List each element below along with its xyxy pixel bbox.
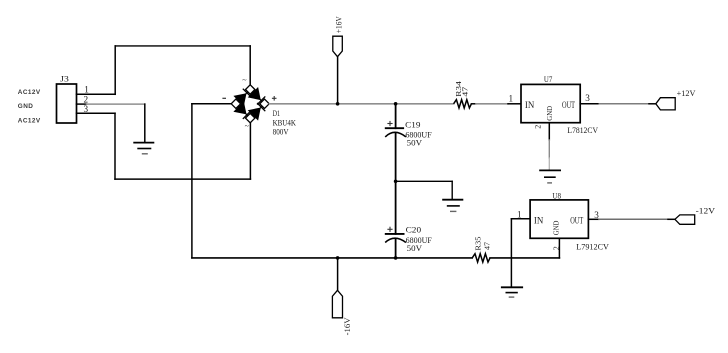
- wire rail to C19 top: [395, 104, 397, 128]
- wire U7 pin2 down (light): [548, 158, 550, 170]
- wire pin2 down to ground: [144, 104, 146, 143]
- power flag -12V shape: [675, 215, 695, 224]
- junction dot at -16V flag: [336, 256, 340, 260]
- wire vertical down from pin3: [114, 113, 116, 179]
- junction dot mid ground branch: [394, 180, 398, 184]
- svg-text:GND: GND: [18, 103, 34, 110]
- svg-text:OUT: OUT: [562, 100, 575, 111]
- svg-text:~: ~: [242, 76, 247, 85]
- svg-text:OUT: OUT: [570, 216, 583, 227]
- ground symbol at U8: [502, 287, 522, 297]
- wire U8 pin1 / ground vertical: [510, 219, 512, 287]
- capacitor C19 symbol: [385, 121, 406, 137]
- wire bottom horizontal to bridge: [115, 178, 250, 180]
- svg-text:47: 47: [483, 242, 492, 250]
- svg-text:KBU4K: KBU4K: [273, 118, 296, 127]
- wire U8 pin2 down: [558, 238, 560, 258]
- svg-text:GND: GND: [552, 220, 561, 235]
- svg-text:3: 3: [585, 93, 590, 103]
- wire down to bridge ~ top: [249, 46, 251, 85]
- wire stub into U7 pin1: [508, 103, 521, 105]
- svg-text:U7: U7: [544, 75, 552, 84]
- resistor R34 zigzag: [454, 100, 472, 108]
- wire -16V flag drop: [337, 258, 339, 290]
- wire into +12V flag: [649, 103, 656, 105]
- svg-text:AC12V: AC12V: [18, 89, 41, 96]
- wire top horizontal to bridge: [115, 45, 250, 47]
- regulator U7 box: [521, 84, 580, 122]
- svg-text:1: 1: [517, 210, 522, 220]
- svg-text:IN: IN: [525, 100, 534, 111]
- power flag +12V shape: [656, 98, 675, 110]
- ground symbol at J3 pin2: [134, 143, 153, 154]
- ground symbol at U7: [540, 170, 560, 183]
- junction dot at +16V flag: [336, 102, 340, 106]
- svg-text:L7812CV: L7812CV: [567, 125, 598, 135]
- junction dot C20 at bottom rail: [394, 256, 398, 260]
- svg-text:50V: 50V: [407, 243, 423, 253]
- svg-text:D1: D1: [273, 109, 280, 118]
- regulator U8 box: [530, 200, 588, 238]
- svg-text:AC12V: AC12V: [18, 118, 41, 125]
- svg-text:3: 3: [594, 210, 599, 220]
- connector J3 box: [57, 84, 77, 123]
- wire bridge - terminal stub: [192, 103, 231, 105]
- svg-text:C19: C19: [405, 119, 420, 129]
- wire J3 pin1 to corner: [77, 93, 116, 95]
- wire bridge + to R34 (gray net): [269, 103, 453, 105]
- wire U7 pin3 stub: [580, 103, 599, 105]
- wire U8 pin3 stub: [588, 218, 599, 220]
- wire bridge ~ bottom down: [249, 123, 251, 179]
- bridge terminal label + (right): [272, 96, 277, 101]
- wire J3 pin2 gray net: [87, 103, 145, 105]
- svg-text:3: 3: [84, 104, 89, 114]
- wire R34 to U7 pin1 (gray net): [476, 103, 508, 105]
- svg-text:GND: GND: [545, 106, 554, 121]
- wire vertical bridge - to bottom rail: [191, 104, 193, 258]
- wire into -12V flag: [668, 218, 675, 220]
- bridge terminal label - (left): [222, 97, 226, 99]
- svg-text:50V: 50V: [407, 137, 423, 147]
- svg-text:2: 2: [534, 125, 543, 129]
- svg-text:R35: R35: [473, 236, 482, 250]
- wire bottom rail right of R35: [490, 257, 559, 259]
- svg-text:~: ~: [245, 121, 250, 130]
- wire C19 bottom to mid junction and C20: [395, 133, 397, 234]
- wire vertical up from pin1: [114, 46, 116, 94]
- wire C20 bottom to rail: [395, 239, 397, 258]
- svg-text:1: 1: [509, 94, 514, 104]
- wire +16V flag to rail: [337, 57, 339, 104]
- ground symbol mid (C19/C20): [443, 200, 462, 212]
- bridge rectifier D1: [231, 85, 269, 123]
- svg-text:-12V: -12V: [696, 206, 716, 216]
- svg-text:J3: J3: [60, 75, 69, 84]
- svg-text:C20: C20: [406, 224, 422, 234]
- resistor R35 zigzag: [472, 254, 490, 262]
- capacitor C20 symbol: [385, 227, 406, 243]
- wire R34 right stub: [471, 103, 476, 105]
- svg-text:800V: 800V: [273, 128, 289, 137]
- svg-text:+16V: +16V: [334, 16, 343, 33]
- svg-text:47: 47: [460, 87, 469, 97]
- power flag +16V shape: [333, 36, 343, 57]
- svg-text:1: 1: [84, 85, 89, 95]
- svg-text:-16V: -16V: [343, 317, 352, 335]
- wire U8 out gray net: [599, 218, 668, 220]
- wire bottom rail left of R35: [192, 257, 472, 259]
- svg-text:+12V: +12V: [677, 88, 697, 98]
- svg-text:U8: U8: [552, 192, 561, 201]
- power flag -16V shape: [332, 290, 342, 318]
- wire ground corner down: [451, 181, 453, 199]
- svg-text:IN: IN: [534, 216, 543, 227]
- wire J3 pin3 to corner: [77, 112, 116, 114]
- svg-text:L7912CV: L7912CV: [576, 242, 609, 252]
- wire U8 pin1 from left: [511, 218, 530, 220]
- wire mid junction to ground corner: [396, 180, 453, 182]
- wire U7 pin2 down (black): [548, 123, 550, 140]
- wire J3 pin2 stub: [77, 103, 87, 105]
- wire U7 out gray net: [599, 103, 649, 105]
- wire U7 pin2 down (gray): [548, 140, 550, 158]
- junction dot at C19 top: [394, 102, 398, 106]
